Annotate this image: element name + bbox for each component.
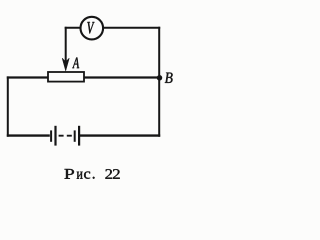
caption text: 22 [105, 169, 119, 179]
wire: rheostat right lead to node B [85, 76, 160, 78]
voltmeter U1 (circle) [81, 17, 104, 40]
battery GB cell 2 positive plate (long) [78, 126, 80, 146]
rheostat R (slide-wire resistor body) [48, 72, 84, 82]
label A (wiper arrow) [72, 58, 79, 69]
label V (voltmeter) [87, 22, 94, 34]
arrowhead of wiper pointing at rheostat [62, 58, 69, 71]
wire: battery to bottom right corner [80, 134, 161, 136]
wire: bottom left to battery [7, 134, 50, 136]
wire: rheostat left lead [7, 76, 49, 78]
battery GB cell 1 negative plate (short) [50, 130, 52, 141]
wire: voltmeter left lead to wiper corner [65, 27, 81, 29]
battery GB cell 1 positive plate (long) [54, 126, 56, 146]
wire: left vertical [7, 76, 9, 136]
dashed link (omitted cells) [59, 135, 73, 137]
label B (node) [165, 73, 173, 83]
wire: wiper arm vertical (slider) [65, 27, 67, 62]
node B junction dot [157, 75, 163, 81]
battery GB cell 2 negative plate (short) [74, 130, 76, 141]
caption text: Рис. [64, 169, 94, 179]
wire: voltmeter right lead [103, 27, 160, 29]
wire: right vertical (node B branch) [158, 27, 160, 137]
